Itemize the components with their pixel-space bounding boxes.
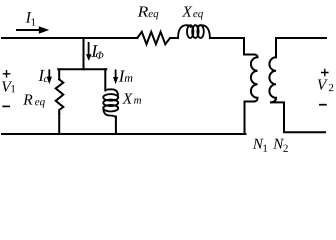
wire secondary bottom lead (271, 102, 325, 132)
arrow current I1 (16, 26, 49, 33)
label Req series (136, 4, 159, 21)
arrow current Im (113, 70, 118, 85)
label Im (118, 67, 133, 86)
label I1 (25, 10, 36, 29)
label Req shunt (22, 92, 45, 109)
wire shunt top bar (58, 68, 106, 70)
inductor Xeq loop 1 (187, 25, 193, 38)
svg-text:2: 2 (283, 143, 289, 155)
transformer T1 primary lead top (244, 38, 254, 55)
svg-text:eq: eq (193, 8, 204, 20)
arrow current Ic (47, 69, 52, 84)
svg-text:Φ: Φ (95, 50, 104, 62)
svg-text:eq: eq (35, 96, 46, 108)
svg-text:m: m (124, 71, 133, 85)
label N2 (272, 137, 288, 155)
svg-text:X: X (181, 4, 192, 21)
inductor Xeq loop 2 (192, 25, 198, 38)
wire left shunt branch bottom lead (58, 114, 60, 135)
label V1 port with plus and minus (1, 71, 16, 107)
wire left shunt branch top lead (58, 69, 60, 79)
wire top main (right of coil to transformer corner) (210, 37, 244, 39)
wire shunt stub junction from top wire (83, 38, 85, 69)
svg-text:X: X (122, 91, 133, 108)
label V2 port with plus and minus (317, 69, 334, 104)
inductor Xeq exit arch (197, 25, 210, 38)
label Xm shunt (122, 91, 142, 108)
arrow current Iphi (86, 42, 92, 61)
resistor Req (series) zigzag (137, 32, 178, 44)
svg-text:R: R (136, 4, 148, 21)
inductor Xeq loop 3 (197, 25, 203, 38)
inductor Xm exit arch (103, 108, 116, 118)
resistor Req (shunt core-loss branch) zigzag (56, 79, 64, 113)
svg-text:1: 1 (262, 143, 268, 155)
label N1 (252, 137, 268, 155)
label Iphi (90, 41, 104, 62)
transformer T1 secondary winding N2 bumps (269, 57, 276, 102)
inductor Xm loop 2 (103, 100, 118, 107)
inductor Xm loop 3 (103, 105, 118, 112)
svg-text:R: R (22, 92, 33, 109)
svg-text:1: 1 (10, 83, 16, 95)
wire right shunt branch bottom lead (115, 117, 117, 135)
transformer T1 primary lead bottom (245, 102, 254, 135)
wire right shunt branch top lead (104, 69, 106, 89)
svg-text:1: 1 (30, 17, 36, 29)
label Ic (37, 66, 48, 85)
wire top main (left of series resistor) (2, 37, 137, 39)
svg-text:m: m (134, 95, 142, 107)
label Xeq series (181, 4, 203, 21)
inductor Xeq (series) entry arch (178, 25, 191, 38)
inductor Xm (magnetizing branch) entry arch (105, 89, 118, 95)
inductor Xm loop 1 (103, 94, 118, 101)
svg-text:V: V (317, 77, 328, 94)
wire secondary top terminal (276, 38, 326, 57)
svg-text:2: 2 (328, 82, 334, 94)
svg-text:c: c (43, 74, 48, 85)
transformer T1 primary winding N1 bumps (251, 54, 258, 101)
svg-text:eq: eq (148, 8, 159, 20)
wire bottom main (2, 133, 246, 135)
